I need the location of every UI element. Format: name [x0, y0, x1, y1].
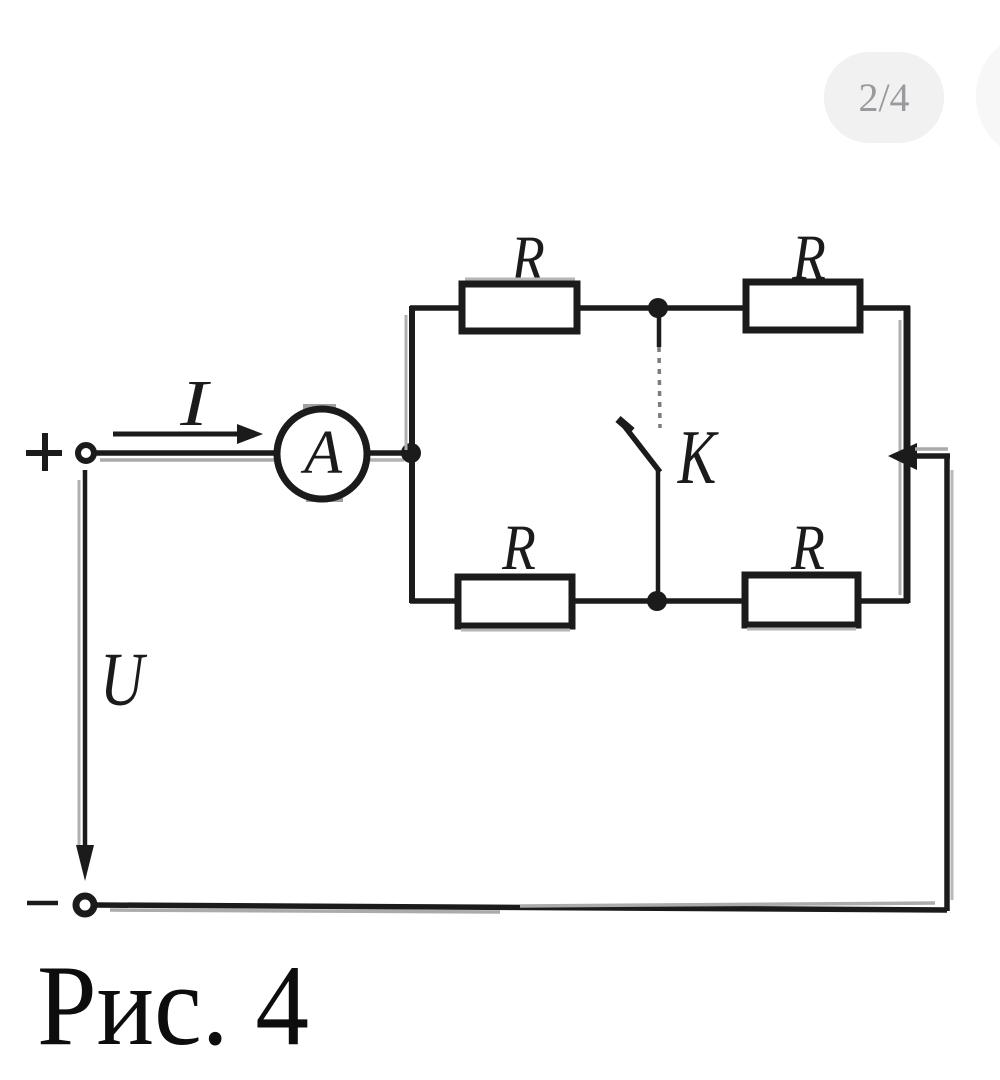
svg-text:U: U — [100, 638, 148, 722]
ammeter A1 — [277, 409, 367, 499]
svg-text:I: I — [179, 367, 211, 440]
minus terminal sign — [27, 901, 58, 906]
node mid-right with arrowhead — [888, 443, 917, 470]
node - terminal circle — [76, 896, 94, 914]
svg-text:K: K — [677, 414, 719, 500]
node bottom junction — [647, 591, 667, 611]
ammeter scan smear top — [303, 404, 336, 410]
wire right outer vertical — [944, 454, 950, 911]
wire ammeter to left bus — [365, 450, 410, 456]
page badge 2/4 — [824, 52, 944, 143]
wire mid-right to outer line — [908, 453, 950, 459]
wire left outer vertical (U measurement line) — [83, 470, 88, 846]
wire + terminal to ammeter — [95, 450, 280, 456]
resistor fringe R4 bottom — [747, 628, 856, 631]
svg-text:Рис. 4: Рис. 4 — [37, 942, 309, 1070]
resistor R3 — [458, 577, 572, 626]
plus terminal sign — [26, 433, 62, 471]
svg-text:R: R — [790, 512, 825, 584]
resistor fringe R1 top — [465, 278, 575, 281]
switch K lower lead — [656, 468, 661, 602]
svg-text:2/4: 2/4 — [858, 75, 909, 120]
arrowhead U direction (down) — [76, 845, 94, 881]
wire bottom right segment — [858, 598, 909, 604]
wire top middle segment — [577, 305, 748, 311]
wire left bus — [409, 306, 415, 603]
switch K upper dotted lead — [659, 313, 660, 428]
wire right bus — [904, 306, 911, 603]
wire bottom middle segment — [572, 598, 747, 604]
current arrow I — [113, 424, 263, 444]
resistor fringe R3 bottom — [461, 629, 570, 632]
resistor R4 — [745, 575, 858, 625]
node top junction — [648, 298, 668, 318]
resistor R1 — [462, 284, 577, 331]
svg-text:A: A — [300, 419, 343, 487]
svg-text:R: R — [791, 222, 826, 294]
svg-text:R: R — [510, 223, 545, 295]
wire top left segment — [410, 305, 464, 311]
svg-text:R: R — [501, 512, 536, 584]
wire bottom left segment — [410, 598, 460, 604]
node left-mid junction — [401, 443, 421, 463]
wire top right segment — [860, 305, 910, 311]
wire bottom outer — [96, 905, 947, 910]
ammeter scan smear bottom — [306, 495, 343, 502]
corner blob (partial badge at right edge) — [976, 34, 1000, 158]
resistor R2 — [746, 282, 860, 330]
wire fringe ammeter to bus — [368, 458, 404, 462]
node + terminal circle — [78, 445, 94, 461]
switch K blade — [618, 419, 660, 472]
